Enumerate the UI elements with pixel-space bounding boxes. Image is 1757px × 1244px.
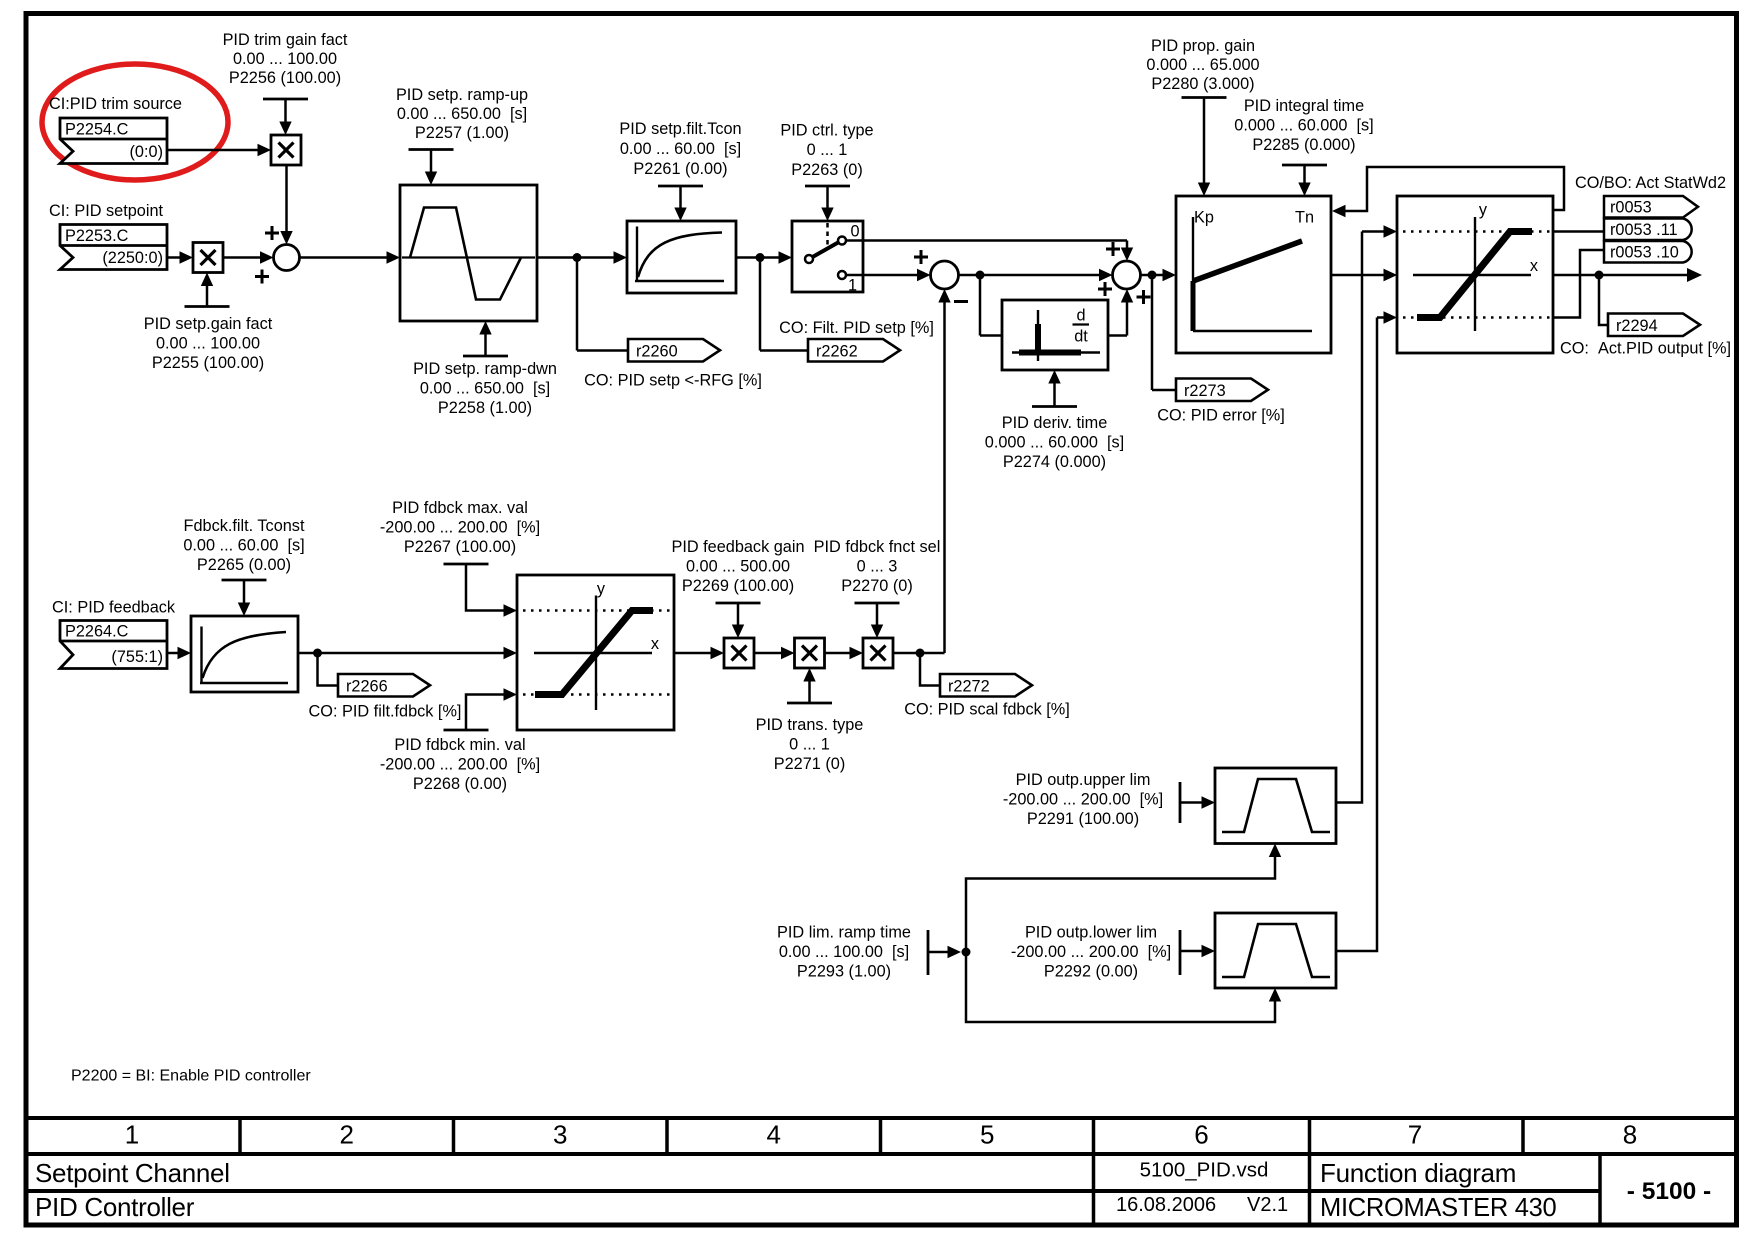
svg-text:P2254.C: P2254.C (65, 121, 129, 139)
svg-text:r2262: r2262 (816, 342, 858, 360)
svg-text:MICROMASTER 430: MICROMASTER 430 (1320, 1194, 1556, 1222)
svg-text:P2264.C: P2264.C (65, 623, 129, 641)
svg-text:P2200 = BI: Enable PID control: P2200 = BI: Enable PID controller (71, 1068, 311, 1085)
svg-text:P2257 (1.00): P2257 (1.00) (415, 124, 509, 142)
svg-text:0.00 ... 60.00 [s]: 0.00 ... 60.00 [s] (620, 140, 741, 158)
svg-text:(0:0): (0:0) (130, 143, 163, 161)
svg-text:P2280 (3.000): P2280 (3.000) (1151, 75, 1254, 93)
svg-text:PID integral time: PID integral time (1244, 97, 1364, 115)
svg-text:P2285 (0.000): P2285 (0.000) (1252, 136, 1355, 154)
svg-text:-200.00 ... 200.00 [%]: -200.00 ... 200.00 [%] (380, 756, 540, 774)
svg-text:d: d (1076, 307, 1085, 325)
svg-text:Kp: Kp (1194, 209, 1214, 227)
svg-text:16.08.2006: 16.08.2006 (1116, 1194, 1216, 1216)
svg-text:0.00 ... 60.00 [s]: 0.00 ... 60.00 [s] (183, 537, 304, 555)
svg-text:P2292 (0.00): P2292 (0.00) (1044, 963, 1138, 981)
svg-text:PID ctrl. type: PID ctrl. type (780, 122, 873, 140)
svg-text:0 ... 1: 0 ... 1 (807, 141, 848, 159)
svg-text:P2271 (0): P2271 (0) (774, 755, 846, 773)
svg-text:-200.00 ... 200.00 [%]: -200.00 ... 200.00 [%] (380, 519, 540, 537)
svg-text:P2291 (100.00): P2291 (100.00) (1027, 810, 1139, 828)
svg-text:0 ... 3: 0 ... 3 (857, 558, 898, 576)
svg-text:P2261 (0.00): P2261 (0.00) (633, 160, 727, 178)
svg-text:CO: PID filt.fdbck [%]: CO: PID filt.fdbck [%] (309, 703, 462, 721)
svg-text:CI: PID feedback: CI: PID feedback (52, 599, 176, 617)
svg-text:PID prop. gain: PID prop. gain (1151, 37, 1255, 55)
svg-text:dt: dt (1074, 328, 1088, 346)
svg-text:0.00 ... 650.00 [s]: 0.00 ... 650.00 [s] (420, 380, 550, 398)
svg-text:r0053: r0053 (1610, 199, 1652, 217)
svg-text:P2258 (1.00): P2258 (1.00) (438, 399, 532, 417)
svg-text:P2265 (0.00): P2265 (0.00) (197, 556, 291, 574)
svg-text:0 ... 1: 0 ... 1 (789, 736, 830, 754)
svg-text:PID outp.lower lim: PID outp.lower lim (1025, 924, 1157, 942)
svg-text:- 5100 -: - 5100 - (1627, 1178, 1711, 1205)
svg-text:Fdbck.filt. Tconst: Fdbck.filt. Tconst (184, 517, 305, 535)
svg-text:PID fdbck max. val: PID fdbck max. val (392, 499, 528, 517)
svg-text:x: x (651, 635, 659, 653)
svg-text:5: 5 (980, 1120, 994, 1150)
svg-text:CO/BO: Act StatWd2: CO/BO: Act StatWd2 (1575, 174, 1726, 192)
svg-text:PID feedback gain: PID feedback gain (671, 538, 804, 556)
svg-text:r0053 .10: r0053 .10 (1610, 244, 1679, 262)
svg-text:1: 1 (125, 1120, 139, 1150)
svg-text:PID fdbck min. val: PID fdbck min. val (394, 736, 525, 754)
svg-text:CI:PID trim source: CI:PID trim source (49, 95, 182, 113)
svg-text:P2267 (100.00): P2267 (100.00) (404, 538, 516, 556)
svg-text:PID trim gain fact: PID trim gain fact (223, 31, 348, 49)
svg-text:-200.00 ... 200.00 [%]: -200.00 ... 200.00 [%] (1003, 791, 1163, 809)
svg-text:r2273: r2273 (1184, 382, 1226, 400)
svg-text:PID setp. ramp-up: PID setp. ramp-up (396, 86, 528, 104)
svg-text:CO: Act.PID output [%]: CO: Act.PID output [%] (1560, 340, 1731, 358)
svg-text:x: x (1530, 257, 1538, 275)
svg-text:3: 3 (553, 1120, 567, 1150)
svg-text:PID setp.gain fact: PID setp.gain fact (144, 315, 273, 333)
svg-text:-200.00 ... 200.00 [%]: -200.00 ... 200.00 [%] (1011, 943, 1171, 961)
svg-text:PID deriv. time: PID deriv. time (1002, 414, 1108, 432)
svg-text:r2294: r2294 (1616, 317, 1658, 335)
svg-text:CO: PID scal fdbck [%]: CO: PID scal fdbck [%] (904, 701, 1070, 719)
svg-text:P2274 (0.000): P2274 (0.000) (1003, 453, 1106, 471)
svg-text:r2266: r2266 (346, 677, 388, 695)
svg-text:8: 8 (1623, 1120, 1637, 1150)
svg-text:CI: PID setpoint: CI: PID setpoint (49, 202, 163, 220)
svg-text:0.000 ... 60.000 [s]: 0.000 ... 60.000 [s] (985, 434, 1124, 452)
svg-text:r2272: r2272 (948, 677, 990, 695)
svg-text:y: y (1479, 201, 1488, 219)
svg-text:y: y (597, 580, 606, 598)
svg-text:0.000 ... 60.000 [s]: 0.000 ... 60.000 [s] (1234, 117, 1373, 135)
svg-text:2: 2 (340, 1120, 354, 1150)
svg-text:V2.1: V2.1 (1247, 1194, 1288, 1216)
svg-text:0.00 ... 100.00 [s]: 0.00 ... 100.00 [s] (779, 943, 909, 961)
svg-text:1: 1 (848, 277, 857, 295)
svg-text:P2263 (0): P2263 (0) (791, 161, 863, 179)
svg-text:P2256 (100.00): P2256 (100.00) (229, 69, 341, 87)
svg-text:PID setp.filt.Tcon: PID setp.filt.Tcon (619, 120, 741, 138)
svg-text:P2270 (0): P2270 (0) (841, 577, 913, 595)
svg-text:6: 6 (1194, 1120, 1208, 1150)
svg-text:PID trans. type: PID trans. type (756, 716, 864, 734)
svg-text:CO: PID error [%]: CO: PID error [%] (1157, 407, 1285, 425)
svg-text:(755:1): (755:1) (111, 648, 163, 666)
svg-text:r0053 .11: r0053 .11 (1610, 221, 1678, 239)
svg-text:P2255 (100.00): P2255 (100.00) (152, 354, 264, 372)
svg-text:PID setp. ramp-dwn: PID setp. ramp-dwn (413, 360, 557, 378)
svg-text:0.00 ... 100.00: 0.00 ... 100.00 (233, 50, 337, 68)
svg-text:r2260: r2260 (636, 342, 678, 360)
svg-text:PID outp.upper lim: PID outp.upper lim (1016, 771, 1151, 789)
svg-text:P2268 (0.00): P2268 (0.00) (413, 775, 507, 793)
svg-text:0.000 ... 65.000: 0.000 ... 65.000 (1146, 56, 1259, 74)
svg-text:0: 0 (851, 223, 860, 241)
svg-text:P2253.C: P2253.C (65, 227, 129, 245)
svg-text:Function diagram: Function diagram (1320, 1158, 1516, 1188)
svg-text:PID fdbck fnct sel: PID fdbck fnct sel (814, 538, 941, 556)
svg-text:P2293 (1.00): P2293 (1.00) (797, 963, 891, 981)
svg-text:7: 7 (1408, 1120, 1422, 1150)
svg-text:4: 4 (767, 1120, 781, 1150)
svg-text:0.00 ... 500.00: 0.00 ... 500.00 (686, 558, 790, 576)
svg-text:PID Controller: PID Controller (35, 1192, 195, 1222)
svg-text:PID lim. ramp time: PID lim. ramp time (777, 924, 911, 942)
svg-text:0.00 ... 100.00: 0.00 ... 100.00 (156, 335, 260, 353)
svg-text:(2250:0): (2250:0) (102, 249, 163, 267)
svg-text:CO: PID setp <-RFG [%]: CO: PID setp <-RFG [%] (584, 372, 762, 390)
svg-text:P2269 (100.00): P2269 (100.00) (682, 577, 794, 595)
svg-text:CO: Filt. PID setp [%]: CO: Filt. PID setp [%] (779, 319, 934, 337)
svg-text:Setpoint Channel: Setpoint Channel (35, 1158, 230, 1188)
svg-text:5100_PID.vsd: 5100_PID.vsd (1140, 1159, 1269, 1182)
svg-text:0.00 ... 650.00 [s]: 0.00 ... 650.00 [s] (397, 105, 527, 123)
svg-text:Tn: Tn (1295, 209, 1314, 227)
